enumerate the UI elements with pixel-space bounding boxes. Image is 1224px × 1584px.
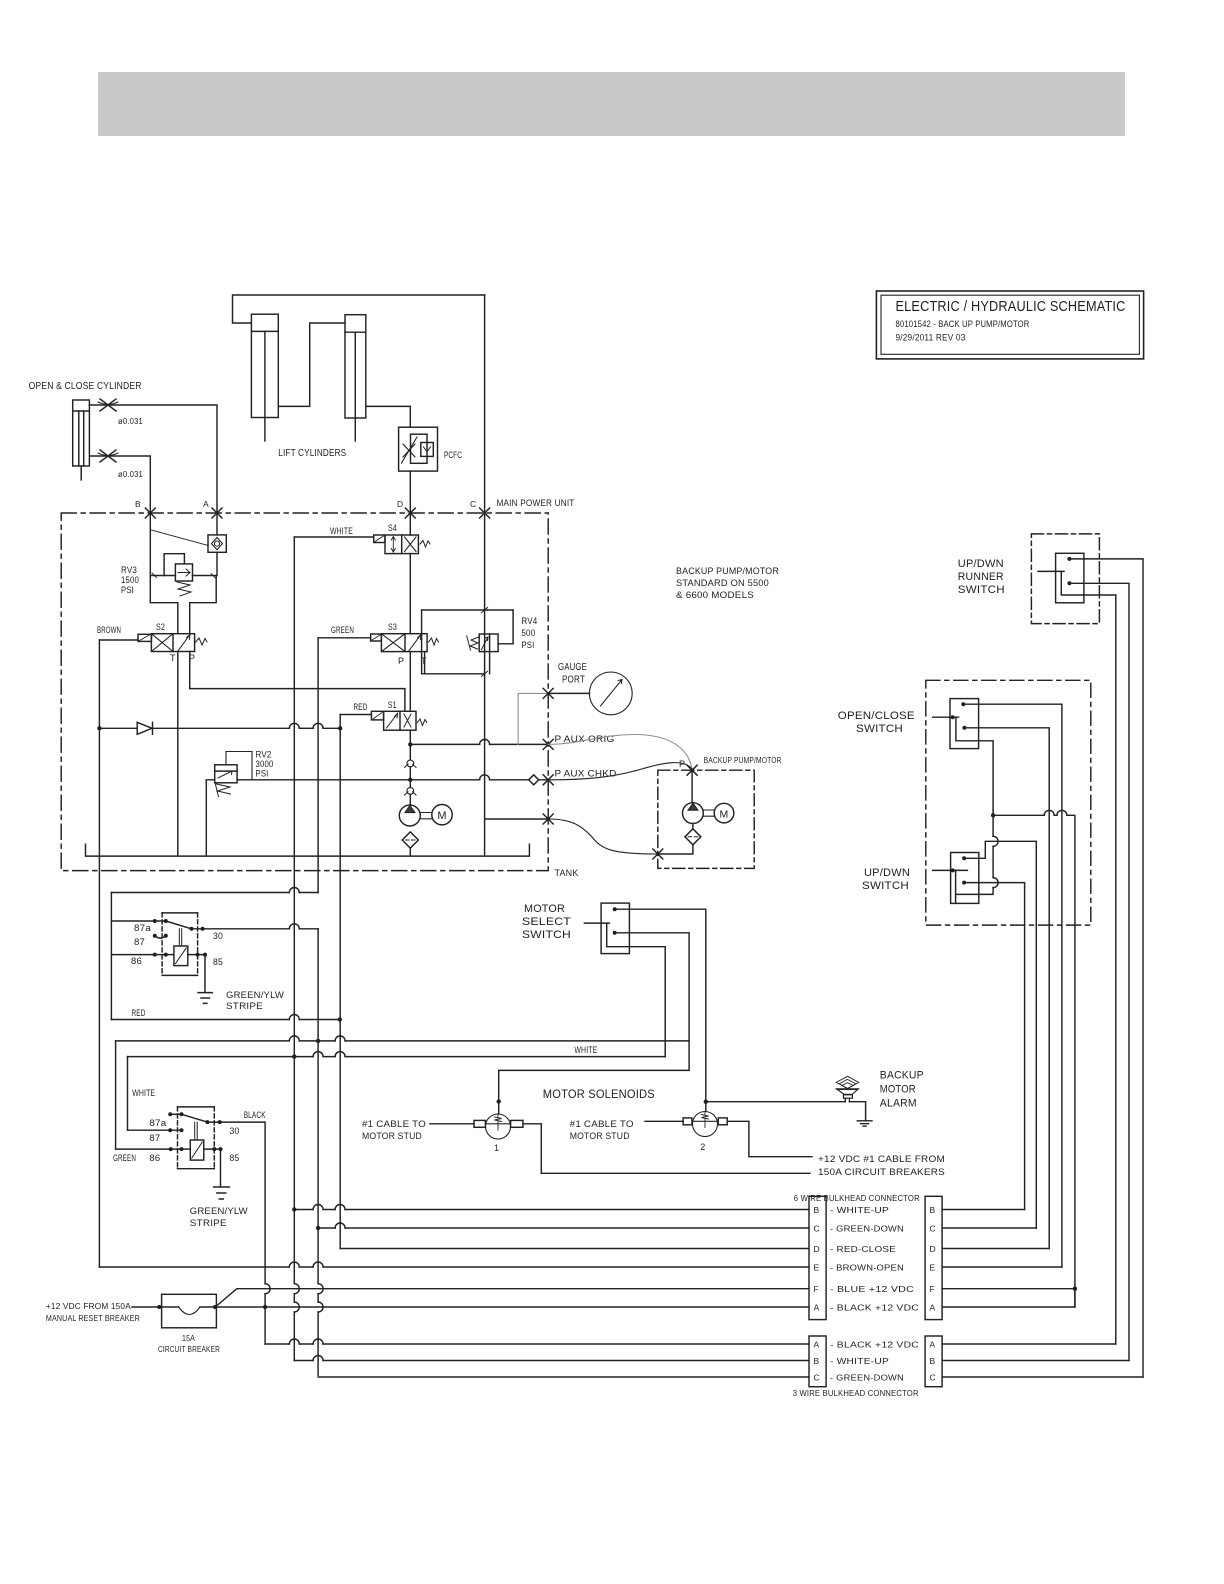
- RV2 relief valve: [215, 765, 237, 783]
- 6w row labels: [830, 1205, 919, 1313]
- svg-text:MOTOR SOLENOIDS: MOTOR SOLENOIDS: [543, 1087, 655, 1101]
- wire cylinder bottom port to node B: [89, 456, 150, 513]
- relay1 85 dots: [196, 953, 207, 957]
- svg-text:P AUX CHKD: P AUX CHKD: [555, 769, 617, 780]
- svg-text:SWITCH: SWITCH: [862, 880, 909, 892]
- svg-text:RV2: RV2: [256, 750, 272, 760]
- RV4 value label: [521, 616, 537, 650]
- wire E row right: [942, 1266, 1062, 1268]
- wire motor select bottom to solenoid1: [499, 933, 689, 1114]
- wire PCFC to node D: [409, 471, 411, 513]
- node B port mark: [145, 508, 155, 518]
- svg-text:MOTOR STUD: MOTOR STUD: [362, 1131, 422, 1142]
- svg-text:S4: S4: [388, 523, 397, 533]
- solenoid valve S3: [371, 634, 439, 652]
- orifice on cylinder top port: [98, 399, 118, 411]
- svg-text:RED: RED: [354, 702, 368, 712]
- S3 port labels P T: [398, 656, 427, 666]
- main power unit dashed border: [61, 513, 548, 871]
- svg-text:BLACK: BLACK: [244, 1110, 266, 1120]
- svg-text:PSI: PSI: [121, 585, 134, 595]
- common riser lower with hops: [956, 810, 994, 894]
- svg-text:85: 85: [213, 957, 223, 967]
- svg-text:MANUAL RESET BREAKER: MANUAL RESET BREAKER: [46, 1313, 140, 1323]
- cable note solenoid2: [570, 1119, 634, 1142]
- wire C row green-down: [318, 1227, 809, 1229]
- relay2 terminal labels: [149, 1118, 239, 1163]
- relay2 switch arm: [182, 1114, 208, 1122]
- svg-text:- WHITE-UP: - WHITE-UP: [830, 1205, 889, 1215]
- svg-text:ALARM: ALARM: [880, 1098, 917, 1110]
- svg-text:PSI: PSI: [521, 640, 534, 650]
- junction dot A row at black bus: [263, 1305, 267, 1309]
- suction filter diamond: [402, 832, 418, 848]
- RV4 relief valve: [479, 634, 498, 652]
- svg-text:BACKUP: BACKUP: [880, 1070, 924, 1082]
- up/dwn switch dots: [962, 856, 966, 884]
- tank bracket: [86, 844, 530, 856]
- svg-text:MAIN POWER UNIT: MAIN POWER UNIT: [497, 498, 575, 508]
- relay2 87a dots: [168, 1112, 183, 1116]
- wire node B down: [149, 513, 151, 576]
- hop green bus over F row: [318, 1284, 323, 1294]
- svg-text:- WHITE-UP: - WHITE-UP: [830, 1356, 889, 1366]
- green bus lower: [317, 929, 319, 1376]
- svg-text:RV3: RV3: [121, 565, 137, 575]
- svg-text:A: A: [203, 499, 209, 509]
- PCFC valve: [399, 427, 438, 471]
- svg-text:C: C: [814, 1224, 820, 1234]
- ball check 1 on D line: [405, 760, 417, 768]
- pilot line from B to check valve: [152, 530, 209, 546]
- hop 3wB over green bus: [313, 1356, 323, 1361]
- hop B row over green bus: [313, 1205, 323, 1210]
- backup pump: [683, 803, 704, 824]
- junction dot check line at brown bus: [97, 726, 101, 730]
- svg-text:C: C: [930, 1224, 936, 1234]
- wire cable stub solenoid1: [430, 1123, 474, 1125]
- brown bus: [98, 640, 100, 1267]
- RV4 loop bottom line: [422, 673, 485, 675]
- WHITE wire from S4 solenoid to white bus: [294, 536, 373, 538]
- hop white bus over A row: [294, 1302, 299, 1312]
- svg-text:150A CIRCUIT BREAKERS: 150A CIRCUIT BREAKERS: [818, 1167, 945, 1178]
- up/dwn switch: [933, 853, 979, 904]
- relay1 ground stripe label: [226, 990, 284, 1012]
- RV4 valve drain to loop bottom: [489, 652, 491, 674]
- pressure gauge: [589, 672, 632, 715]
- wire 3w B row right: [942, 1360, 1129, 1362]
- hop C row over red bus: [335, 1223, 345, 1228]
- open/close switch label: [838, 710, 915, 735]
- relay1 terminal 85 wire: [198, 955, 205, 992]
- wire 3w C row green: [318, 1376, 809, 1378]
- relay2 terminal 86 wire: [116, 1148, 215, 1150]
- motor select switch: [584, 903, 629, 954]
- switch box dashed enclosure: [926, 680, 1091, 925]
- breaker output to A row: [216, 1306, 809, 1308]
- junction dot relay1 bottom at red bus: [338, 1017, 342, 1021]
- 6 wire connector left shell: [809, 1196, 826, 1319]
- P AUX CHKD hose to backup pump: [548, 763, 692, 780]
- relay1 enclosure left wire: [110, 893, 112, 1020]
- relay1 terminal 87a wire: [111, 920, 165, 922]
- svg-text:D: D: [397, 499, 403, 509]
- white bus: [293, 537, 295, 1361]
- wire cylinder2 port to PCFC: [366, 406, 411, 427]
- 3 wire connector right shell: [925, 1336, 942, 1387]
- junction dot white feed at white bus: [292, 1054, 296, 1058]
- svg-text:S2: S2: [156, 622, 165, 632]
- svg-text:B: B: [930, 1356, 936, 1366]
- gauge connection gray line: [518, 693, 548, 744]
- open & close cylinder body: [73, 400, 90, 480]
- wire A row right: [942, 1289, 1075, 1307]
- wire solenoid2 to +12 note: [727, 1121, 812, 1156]
- wire node A down: [216, 513, 218, 535]
- wire cylinder1 port to cylinder2 cap: [278, 323, 345, 406]
- junction dot +12 riser: [991, 813, 995, 817]
- open/close input dot: [951, 715, 955, 719]
- main pump motor M: [432, 805, 452, 825]
- wire S3 T port to RV4 return: [424, 652, 426, 674]
- backup pump P port mark: [687, 765, 697, 775]
- wire alarm feed: [706, 1098, 846, 1102]
- relay2 terminal 87a stub: [170, 1113, 181, 1115]
- svg-text:E: E: [814, 1263, 820, 1273]
- relay1 ground: [198, 993, 212, 1004]
- relay2 85 dots: [212, 1147, 222, 1151]
- runner switch label: [958, 558, 1005, 596]
- backup pump/motor note: [676, 566, 779, 601]
- wire D through S3 to S1: [409, 652, 411, 712]
- hop black bus over F row: [265, 1284, 270, 1294]
- hop white bus over F row: [294, 1284, 299, 1294]
- hop green bus over A row: [318, 1302, 323, 1312]
- RV3 pilot loop: [164, 554, 184, 576]
- svg-text:& 6600 MODELS: & 6600 MODELS: [676, 590, 754, 601]
- RV3 relief valve: [175, 564, 192, 581]
- svg-text:D: D: [930, 1244, 936, 1254]
- svg-text:- BLACK +12 VDC: - BLACK +12 VDC: [830, 1303, 919, 1313]
- P AUX CHKD line: [237, 779, 548, 781]
- svg-text:F: F: [930, 1284, 935, 1294]
- RV3 value label: [121, 565, 139, 595]
- svg-text:F: F: [814, 1284, 819, 1294]
- wire C row right: [942, 1227, 1036, 1229]
- svg-text:3 WIRE BULKHEAD CONNECTOR: 3 WIRE BULKHEAD CONNECTOR: [793, 1388, 919, 1398]
- wire F row right: [942, 1288, 1075, 1290]
- relay1 terminal 30 wire to green riser: [192, 928, 319, 930]
- hop white bus over 30 wire: [289, 924, 299, 929]
- hop white bus over relay1 bottom: [289, 1015, 299, 1020]
- runner switch dashed enclosure: [1031, 534, 1099, 624]
- RV2 pilot loop: [226, 752, 252, 780]
- junction dot D at P AUX CHKD: [408, 778, 412, 782]
- svg-text:A: A: [930, 1303, 936, 1313]
- hop B row over red bus: [335, 1205, 345, 1210]
- wire cable stub solenoid2: [645, 1120, 683, 1122]
- P AUX ORIG line: [410, 743, 548, 745]
- svg-text:A: A: [814, 1303, 820, 1313]
- wire P to backup pump: [691, 770, 693, 803]
- gauge line to gauge: [548, 692, 589, 694]
- svg-text:TANK: TANK: [555, 868, 579, 879]
- wire C line through power unit: [484, 513, 486, 855]
- wire D below S1 to pump: [409, 730, 411, 805]
- open/close switch: [933, 699, 979, 749]
- svg-text:T: T: [170, 653, 176, 663]
- RV4 junction tick at C top: [482, 608, 488, 613]
- inline check diamond on CHKD line: [529, 775, 539, 785]
- relay1 terminal 86 wire: [111, 954, 197, 956]
- wire runner common to 3wire A: [1084, 595, 1116, 1344]
- hop green bus over white feed: [313, 1052, 323, 1057]
- wire filter to tank: [409, 848, 411, 856]
- RV3 spring: [177, 582, 191, 596]
- wire open/close common riser: [979, 741, 994, 810]
- 3w pin letters right: [930, 1340, 936, 1383]
- svg-text:PORT: PORT: [562, 675, 585, 686]
- svg-text:LIFT CYLINDERS: LIFT CYLINDERS: [278, 447, 346, 459]
- svg-text:UP/DWN: UP/DWN: [864, 867, 910, 879]
- pilot operated check valve on A line: [208, 535, 226, 552]
- svg-text:SWITCH: SWITCH: [856, 723, 903, 735]
- breaker terminal dots: [157, 1305, 217, 1309]
- RV4 loop left side: [421, 610, 423, 674]
- svg-text:WHITE: WHITE: [330, 526, 353, 536]
- breaker lever to F row: [216, 1289, 809, 1306]
- wire solenoid1 to +12 note: [523, 1124, 810, 1174]
- svg-text:GREEN/YLW: GREEN/YLW: [226, 990, 284, 1001]
- 6w right side stubs: [942, 1209, 1025, 1211]
- svg-text:- BLACK +12 VDC: - BLACK +12 VDC: [830, 1340, 919, 1350]
- svg-text:SWITCH: SWITCH: [958, 584, 1005, 596]
- pump motor shaft: [420, 813, 431, 819]
- wire RV3 loop left down to T leg: [150, 576, 178, 634]
- solenoid valve S2: [138, 634, 207, 652]
- main pump: [399, 805, 420, 826]
- green feed wire to relay2 86: [116, 1040, 690, 1042]
- wire S2 T port to tank: [177, 652, 179, 857]
- lift cylinder 1: [251, 314, 278, 441]
- 6 wire connector right shell: [925, 1196, 942, 1319]
- RV4 loop top line: [422, 609, 513, 611]
- svg-text:GREEN/YLW: GREEN/YLW: [190, 1206, 248, 1217]
- RV2 value label: [256, 750, 274, 779]
- wire runner top to 3wire C: [1069, 559, 1143, 1377]
- +12 wire across to F/A riser: [993, 815, 1075, 1307]
- wire E row brown-open: [99, 1266, 809, 1268]
- hop +12 wire over D riser: [1044, 810, 1054, 815]
- junction dot green feed at green bus: [316, 1039, 320, 1043]
- relay2 ground: [214, 1187, 230, 1199]
- alarm ground: [849, 1102, 872, 1127]
- svg-text:ELECTRIC / HYDRAULIC SCHEMATIC: ELECTRIC / HYDRAULIC SCHEMATIC: [896, 299, 1126, 315]
- svg-text:UP/DWN: UP/DWN: [958, 558, 1004, 570]
- backup suction filter: [685, 829, 701, 845]
- svg-text:+12 VDC #1 CABLE FROM: +12 VDC #1 CABLE FROM: [818, 1154, 945, 1165]
- title block border: [876, 291, 1143, 359]
- RV3 main line: [150, 575, 216, 577]
- open/close switch dots: [961, 702, 966, 730]
- wire D row right: [942, 1248, 1049, 1250]
- svg-text:- BROWN-OPEN: - BROWN-OPEN: [830, 1263, 904, 1273]
- gauge port label: [558, 662, 587, 686]
- svg-text:80101542 - BACK UP PUMP/MOTOR: 80101542 - BACK UP PUMP/MOTOR: [896, 319, 1030, 329]
- RED wire from S1 solenoid to red bus: [340, 714, 371, 716]
- svg-text:#1 CABLE TO: #1 CABLE TO: [362, 1119, 426, 1130]
- +12 VDC cable note: [818, 1154, 945, 1178]
- svg-text:A: A: [814, 1340, 820, 1350]
- tank suction hose to backup pump: [548, 819, 658, 854]
- junction dot check line at red bus: [338, 726, 342, 730]
- P AUX ORIG port mark: [543, 739, 553, 749]
- svg-text:P: P: [398, 656, 404, 666]
- BROWN wire from S2 solenoid: [99, 639, 138, 641]
- hop common riser over green-down wire: [993, 836, 998, 846]
- motor select switch label: [522, 903, 571, 941]
- wire 3w A row right: [942, 1343, 1116, 1345]
- red bus: [339, 715, 341, 1249]
- svg-text:BACKUP PUMP/MOTOR: BACKUP PUMP/MOTOR: [676, 566, 779, 577]
- green bus upper: [317, 638, 319, 893]
- P AUX CHKD port mark: [543, 775, 553, 785]
- svg-text:B: B: [135, 499, 141, 509]
- hop common riser over white-up wire: [993, 878, 998, 888]
- svg-text:87: 87: [134, 937, 145, 947]
- wire D through S4: [409, 513, 411, 634]
- svg-text:87: 87: [149, 1133, 160, 1143]
- junction dot F row at +12 riser: [1073, 1287, 1077, 1291]
- svg-text:GAUGE: GAUGE: [558, 662, 587, 673]
- svg-text:M: M: [437, 810, 446, 822]
- tank suction branch from C: [485, 818, 549, 820]
- svg-text:RV4: RV4: [521, 616, 537, 626]
- svg-text:P: P: [679, 759, 685, 769]
- node C port mark: [480, 508, 490, 518]
- wire D row red-close: [340, 1248, 809, 1250]
- svg-text:ø0.031: ø0.031: [118, 469, 143, 479]
- svg-text:#1 CABLE TO: #1 CABLE TO: [570, 1119, 634, 1130]
- relay2 terminal 87 wire: [128, 1129, 182, 1131]
- node A port mark: [212, 508, 222, 518]
- svg-text:- GREEN-DOWN: - GREEN-DOWN: [830, 1224, 904, 1234]
- backup pump dashed enclosure: [658, 770, 754, 868]
- svg-text:C: C: [814, 1373, 820, 1383]
- svg-text:2: 2: [700, 1142, 705, 1152]
- lift cylinders top manifold wire: [233, 295, 485, 323]
- svg-text:GREEN: GREEN: [113, 1153, 136, 1163]
- svg-text:6 WIRE BULKHEAD CONNECTOR: 6 WIRE BULKHEAD CONNECTOR: [794, 1193, 920, 1203]
- wire 3w C row right: [942, 1376, 1143, 1378]
- svg-text:87a: 87a: [134, 923, 151, 933]
- svg-text:3000: 3000: [256, 759, 274, 769]
- svg-text:ø0.031: ø0.031: [118, 416, 143, 426]
- svg-text:MOTOR: MOTOR: [524, 903, 565, 915]
- svg-text:GREEN: GREEN: [331, 625, 354, 635]
- wire backup filter to suction port: [658, 824, 693, 855]
- svg-text:S3: S3: [388, 622, 397, 632]
- 3w pin letters left: [814, 1340, 820, 1383]
- relay1 coil: [174, 929, 188, 966]
- runner switch: [1038, 553, 1084, 603]
- svg-text:85: 85: [230, 1153, 240, 1163]
- hop red bus over white feed: [335, 1052, 345, 1057]
- wire RV3 loop right down to P leg: [190, 576, 217, 634]
- breaker label: [158, 1333, 220, 1354]
- svg-text:OPEN & CLOSE CYLINDER: OPEN & CLOSE CYLINDER: [29, 380, 142, 392]
- svg-text:15A: 15A: [182, 1333, 195, 1343]
- wire 3w A row black: [265, 1343, 809, 1345]
- junction dot C row at green bus: [316, 1226, 320, 1230]
- motor select dots: [613, 907, 617, 935]
- RV4 spring: [467, 636, 479, 650]
- svg-text:MOTOR: MOTOR: [880, 1084, 916, 1096]
- 3w row labels: [830, 1340, 919, 1383]
- svg-text:86: 86: [149, 1153, 160, 1163]
- wire motor select common white: [629, 947, 665, 1057]
- svg-text:RED: RED: [132, 1008, 146, 1018]
- relay2 30 dots: [205, 1120, 221, 1124]
- backup motor alarm speaker: [836, 1076, 859, 1101]
- gauge port mark: [543, 688, 553, 698]
- relay1 86 dots: [153, 953, 168, 957]
- svg-text:9/29/2011 REV 03: 9/29/2011 REV 03: [896, 333, 966, 343]
- svg-text:30: 30: [213, 931, 223, 941]
- svg-text:500: 500: [521, 628, 535, 638]
- relay1 terminal 87 stub: [155, 936, 166, 938]
- backup suction port mark: [653, 849, 663, 859]
- lift cylinder 2: [345, 315, 366, 441]
- svg-text:OPEN/CLOSE: OPEN/CLOSE: [838, 710, 915, 722]
- svg-text:A: A: [930, 1340, 936, 1350]
- junction dot solenoid1 line: [497, 1099, 501, 1103]
- svg-text:C: C: [470, 499, 476, 509]
- RV4 junction tick at C bottom: [482, 671, 488, 676]
- svg-text:B: B: [814, 1205, 820, 1215]
- hop over C on ORIG line: [480, 739, 490, 744]
- wire 3w B row white: [294, 1360, 809, 1362]
- wire green feed corner down to 86: [115, 1041, 117, 1149]
- svg-text:BROWN: BROWN: [97, 625, 121, 635]
- relay2 terminal 85 wire: [214, 1149, 220, 1186]
- svg-text:SWITCH: SWITCH: [522, 929, 571, 941]
- svg-text:D: D: [814, 1244, 820, 1254]
- relay1 switch arm: [166, 921, 192, 929]
- solenoid valve S4: [374, 535, 430, 554]
- motor solenoid 2: [683, 1112, 727, 1137]
- relay1 terminal labels: [131, 923, 223, 967]
- svg-text:87a: 87a: [149, 1118, 166, 1128]
- hop E row over green bus: [313, 1262, 323, 1267]
- svg-text:M: M: [720, 808, 729, 820]
- motor solenoid 1: [474, 1114, 523, 1140]
- wire up/dwn top to C row: [964, 841, 1036, 1228]
- svg-text:PCFC: PCFC: [444, 450, 462, 461]
- junction dot B row at white bus: [292, 1207, 296, 1211]
- runner switch dots: [1067, 557, 1071, 585]
- svg-text:+12 VDC FROM 150A: +12 VDC FROM 150A: [46, 1301, 131, 1311]
- cable note solenoid1: [362, 1119, 426, 1142]
- wire B row white-up: [294, 1209, 809, 1211]
- svg-text:86: 86: [131, 956, 142, 966]
- hop +12 wire over E riser: [1057, 810, 1067, 815]
- white feed wire to relay2 87: [128, 1056, 666, 1058]
- hop 3wA over white bus: [289, 1339, 299, 1344]
- svg-text:STANDARD ON 5500: STANDARD ON 5500: [676, 578, 769, 589]
- svg-text:BACKUP PUMP/MOTOR: BACKUP PUMP/MOTOR: [704, 755, 782, 765]
